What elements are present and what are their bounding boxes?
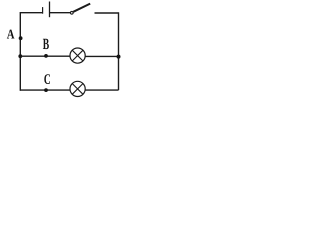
lamp L2 circle (70, 81, 85, 96)
wire: middle branch left (junction to lamp L1) (20, 55, 70, 57)
wire: right vertical (118, 12, 120, 90)
wire: middle branch right (lamp L1 to right wire) (85, 55, 118, 57)
lamp L1 cross (72, 50, 83, 61)
switch pivot circle (70, 11, 73, 14)
wire: top-left horizontal (corner to battery) (20, 12, 42, 14)
node C dot (44, 88, 48, 92)
battery long plate (49, 2, 51, 18)
wire: bottom branch right (lamp L2 to right wire) (85, 89, 118, 91)
junction dot right-middle (117, 55, 121, 59)
lamp L2 cross (72, 84, 83, 95)
node A dot (19, 36, 23, 40)
lamp L1 circle (70, 48, 85, 63)
wire: battery to switch (50, 12, 71, 14)
wire: switch to top-right corner (95, 12, 119, 14)
node B dot (44, 54, 48, 58)
wire: left vertical (19, 12, 21, 91)
label B (43, 39, 49, 49)
junction dot left-middle (18, 54, 22, 58)
switch arm (73, 4, 90, 12)
label C (44, 74, 50, 84)
battery short plate (42, 7, 44, 14)
wire: bottom branch left (corner to lamp L2) (20, 89, 70, 91)
label A (7, 30, 15, 39)
